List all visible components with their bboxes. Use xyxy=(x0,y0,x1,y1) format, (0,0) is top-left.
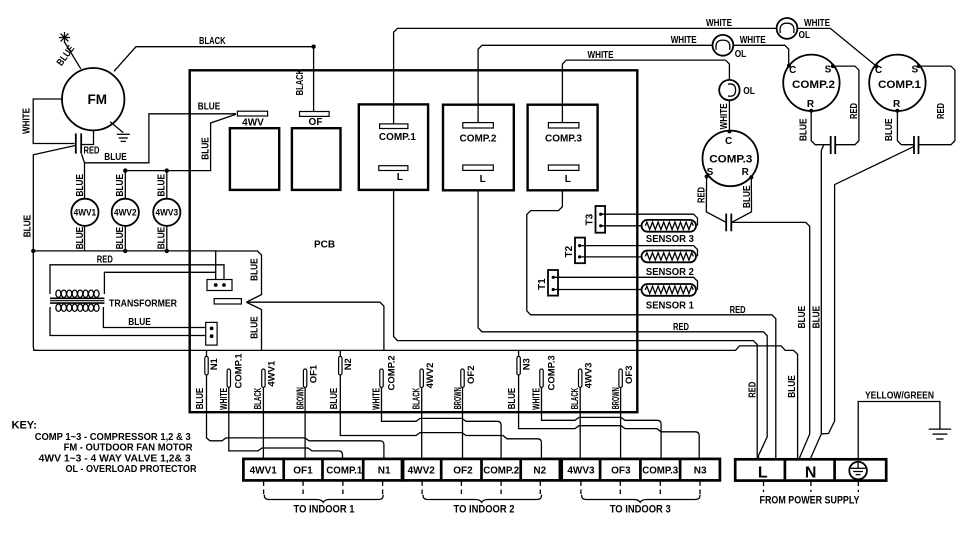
svg-text:WHITE: WHITE xyxy=(706,18,732,29)
thermistor SENSOR 2 xyxy=(642,251,697,263)
wire: top bus to 4WV relay bar riser xyxy=(125,114,236,170)
ground (FM frame) xyxy=(110,122,123,133)
transformer T xyxy=(50,290,104,311)
svg-text:BLUE: BLUE xyxy=(115,227,126,250)
wire BLACK: pin 4WV1 to terminal 4WV1 xyxy=(262,387,264,459)
svg-text:COMP.1: COMP.1 xyxy=(326,465,362,476)
dashed stubs block 3 xyxy=(581,481,700,495)
wire RED: COMP.2 S to capacitor xyxy=(833,66,859,145)
fan motor FM xyxy=(62,68,124,130)
wire BLUE: FM bottom to 4WV bar riser xyxy=(85,114,237,163)
wire: T3 upper pin to sensor3 right end xyxy=(601,214,698,226)
svg-text:OL - OVERLOAD PROTECTOR: OL - OVERLOAD PROTECTOR xyxy=(66,464,198,475)
svg-text:BLUE: BLUE xyxy=(797,306,808,329)
svg-text:BLACK: BLACK xyxy=(411,387,422,409)
pin COMP.1 xyxy=(227,369,230,387)
wire: COMP.1 L to power L xyxy=(394,190,758,459)
pin 4WV3 xyxy=(579,369,582,387)
terminal block 2 xyxy=(403,459,560,481)
wire: 4WV1 top lead xyxy=(84,163,86,199)
svg-text:T1: T1 xyxy=(537,278,548,290)
svg-text:COMP.3: COMP.3 xyxy=(545,134,582,145)
wire: 4WV1 bottom lead xyxy=(84,226,86,251)
svg-text:N3: N3 xyxy=(521,358,532,370)
wire: junction down to OF bar xyxy=(313,47,315,112)
svg-text:BLUE: BLUE xyxy=(75,227,86,250)
svg-text:OF3: OF3 xyxy=(611,466,631,477)
wire BLACK: FM to OF junction xyxy=(114,47,314,72)
wire: neutral line to power N xyxy=(34,346,798,460)
node 4WV2 top xyxy=(123,168,127,172)
svg-text:4WV 1~3 - 4 WAY VALVE 1,2& 3: 4WV 1~3 - 4 WAY VALVE 1,2& 3 xyxy=(39,453,191,464)
svg-text:TO INDOOR 3: TO INDOOR 3 xyxy=(610,504,671,516)
svg-text:BLUE: BLUE xyxy=(75,174,86,197)
connector CN3 (spade crimp terminal) xyxy=(214,299,241,304)
pin OF1 xyxy=(303,369,306,387)
compressor COMP.1 motor xyxy=(869,55,925,111)
svg-text:BLUE: BLUE xyxy=(249,316,260,339)
wire: OL3 to COMP.3 C xyxy=(728,100,730,131)
overload protector OL2 xyxy=(713,35,734,56)
svg-text:R: R xyxy=(893,99,901,110)
relay 4WV box xyxy=(230,128,279,190)
transformer primary coil xyxy=(56,290,61,297)
wire WHITE: pin COMP.1 to terminal COMP.1 xyxy=(229,387,343,459)
dashed stubs block 2 xyxy=(422,481,540,495)
PCB board outline xyxy=(190,70,638,412)
svg-text:BLUE: BLUE xyxy=(115,174,126,197)
wire RED: COMP.3 S to capacitor xyxy=(706,177,726,223)
svg-text:4WV3: 4WV3 xyxy=(156,208,179,218)
svg-text:N2: N2 xyxy=(343,358,354,370)
svg-text:4WV1: 4WV1 xyxy=(250,466,278,477)
svg-text:BLACK: BLACK xyxy=(199,36,226,47)
pin 4WV2 xyxy=(420,369,423,387)
thermistor SENSOR 1 xyxy=(642,284,697,296)
svg-text:BLUE: BLUE xyxy=(507,388,518,410)
wire RED: primary left to connector xyxy=(50,265,224,294)
dashed stubs block 1 xyxy=(264,481,383,495)
earth terminal symbol xyxy=(849,462,867,480)
svg-text:S: S xyxy=(825,64,832,75)
relay OF terminal bar xyxy=(300,112,330,117)
svg-text:N: N xyxy=(805,465,817,482)
dashed stubs power block xyxy=(764,482,859,492)
svg-text:N3: N3 xyxy=(694,465,707,476)
svg-text:BLUE: BLUE xyxy=(201,137,212,160)
valve coil 4WV2 xyxy=(112,199,139,226)
wire: T2 lower pin to sensor2 left end xyxy=(580,256,643,258)
wire stub: N line to pin N2 xyxy=(339,350,341,357)
wire BROWN: pin OF3 to terminal OF3 xyxy=(620,387,622,459)
svg-text:BLUE: BLUE xyxy=(198,102,221,113)
wire WHITE: COMP.3 relay to OL3 xyxy=(562,60,729,123)
pin N2 xyxy=(339,356,342,375)
wire: 4WV3 top lead xyxy=(166,171,168,199)
svg-text:OF3: OF3 xyxy=(624,366,635,384)
svg-text:L: L xyxy=(480,174,486,185)
svg-text:BLUE: BLUE xyxy=(787,375,798,398)
svg-text:BLACK: BLACK xyxy=(570,387,581,409)
svg-text:BLACK: BLACK xyxy=(253,387,264,409)
wire WHITE: pin COMP.3 to terminal COMP.3 xyxy=(542,387,662,459)
svg-text:T3: T3 xyxy=(584,213,595,225)
brace TO INDOOR 2 xyxy=(423,495,542,503)
svg-text:COMP.3: COMP.3 xyxy=(642,465,678,476)
svg-text:SENSOR 3: SENSOR 3 xyxy=(646,234,694,245)
wire: 4WV3 bottom lead xyxy=(166,226,168,251)
node: bus junction far-left xyxy=(31,249,35,253)
svg-text:BLUE: BLUE xyxy=(104,152,127,163)
ground symbol (mains earth) xyxy=(929,429,951,439)
wire WHITE: COMP.2 relay to OL2 xyxy=(478,45,712,122)
node 4WV3 bottom xyxy=(165,249,169,253)
pin OF3 xyxy=(619,369,622,387)
connector CN2 (2-pin vertical) xyxy=(206,322,217,345)
wire BROWN: pin OF1 to terminal OF1 xyxy=(304,387,306,459)
pin 4WV1 xyxy=(262,369,265,387)
svg-text:L: L xyxy=(758,465,768,482)
wire BLUE: COMP.2 R to capacitor xyxy=(811,111,831,145)
svg-text:4WV2: 4WV2 xyxy=(114,208,137,218)
svg-text:BLUE: BLUE xyxy=(798,118,809,141)
wire BLUE: bus extension down to spade junction xyxy=(216,251,262,302)
svg-text:L: L xyxy=(397,172,403,183)
terminal block 3 xyxy=(562,459,720,481)
wire: T1 upper pin to sensor1 right end xyxy=(553,277,697,290)
wire: T1 lower pin to sensor1 left end xyxy=(553,289,642,291)
valve coil 4WV1 xyxy=(71,199,98,226)
svg-text:RED: RED xyxy=(747,382,758,398)
svg-text:RED: RED xyxy=(730,305,746,316)
wire BLUE: pin N2 to terminal N2 xyxy=(340,375,541,459)
svg-text:N2: N2 xyxy=(533,465,546,476)
capacitor C3 xyxy=(725,214,727,232)
wire BLUE: spade junction down to neutral line xyxy=(247,302,262,350)
svg-text:COMP.1: COMP.1 xyxy=(379,132,416,143)
terminal block 1 xyxy=(243,459,402,481)
svg-text:WHITE: WHITE xyxy=(804,18,830,29)
svg-text:L: L xyxy=(565,174,571,185)
wire: secondary left lead xyxy=(50,307,206,336)
relay COMP.2 box xyxy=(443,105,514,191)
svg-text:N1: N1 xyxy=(378,465,391,476)
svg-text:4WV3: 4WV3 xyxy=(584,363,595,389)
wire BLUE: COMP.1 R to capacitor xyxy=(897,111,914,145)
pin COMP.2 xyxy=(380,369,383,387)
relay COMP.3 box xyxy=(528,105,598,191)
svg-text:N1: N1 xyxy=(209,357,220,370)
connector CN1 (2-pin horizontal) xyxy=(207,280,232,291)
capacitor (FM run cap) xyxy=(75,133,77,153)
capacitor C2 xyxy=(830,136,832,154)
wire: cap right plate to FM bottom xyxy=(81,131,93,145)
wire stub: N line to pin N3 xyxy=(518,350,520,357)
svg-text:FM - OUTDOOR FAN MOTOR: FM - OUTDOOR FAN MOTOR xyxy=(64,443,194,454)
brace TO INDOOR 3 xyxy=(582,495,700,503)
svg-text:BLUE: BLUE xyxy=(884,118,895,141)
svg-text:COMP.1: COMP.1 xyxy=(234,353,245,389)
svg-text:BLUE: BLUE xyxy=(742,185,753,208)
wire YELLOW/GREEN: earth terminal to ground xyxy=(858,402,940,460)
svg-text:RED: RED xyxy=(696,187,707,203)
svg-text:OL: OL xyxy=(743,86,755,97)
wire WHITE: pin COMP.2 to terminal COMP.2 xyxy=(382,387,502,459)
svg-text:RED: RED xyxy=(849,103,860,119)
wire: COMP.3 junction right and down to N xyxy=(731,222,809,459)
svg-text:RED: RED xyxy=(97,255,113,266)
svg-text:COMP.2: COMP.2 xyxy=(460,134,497,145)
svg-text:COMP.2: COMP.2 xyxy=(386,355,397,390)
svg-text:OF1: OF1 xyxy=(293,466,313,477)
svg-text:BLUE: BLUE xyxy=(23,215,34,238)
wire: cap right plate down-link to BLUE corner xyxy=(82,154,85,163)
pin N3 xyxy=(517,356,520,375)
wire stub: N line to pin N1 xyxy=(206,350,208,357)
brace TO INDOOR 1 xyxy=(264,495,383,503)
svg-text:RED: RED xyxy=(936,103,947,119)
compressor COMP.3 motor xyxy=(703,131,759,187)
svg-text:COMP 1~3 - COMPRESSOR 1,2 & 3: COMP 1~3 - COMPRESSOR 1,2 & 3 xyxy=(35,432,191,443)
node 4WV3 top xyxy=(165,168,169,172)
wire BLUE: pin N1 to terminal N1 xyxy=(207,375,384,459)
transformer secondary coil xyxy=(56,304,61,311)
svg-text:OL: OL xyxy=(799,30,811,41)
svg-text:WHITE: WHITE xyxy=(22,108,33,134)
svg-text:BLUE: BLUE xyxy=(249,258,260,281)
wire: cap left plate diagonal to far-left vertical xyxy=(33,146,75,251)
wire BLACK: pin 4WV2 to terminal 4WV2 xyxy=(421,387,423,459)
svg-text:BLUE: BLUE xyxy=(157,174,168,197)
svg-text:COMP.2: COMP.2 xyxy=(792,79,835,91)
wire: T3 lower pin to sensor3 left end xyxy=(601,225,643,227)
overload protector OL1 xyxy=(777,18,798,39)
valve coil 4WV3 xyxy=(153,199,180,226)
wire: T2 upper pin to sensor2 right end xyxy=(580,246,698,257)
svg-text:BLACK: BLACK xyxy=(295,68,306,95)
power terminal block xyxy=(735,459,886,480)
wire RED: COMP.2 L to power L xyxy=(478,190,767,459)
svg-text:COMP.3: COMP.3 xyxy=(709,154,752,166)
wire: bottom blue bus xyxy=(33,251,215,280)
wire BROWN: pin OF2 to terminal OF2 xyxy=(462,387,464,459)
wire: OL2 to COMP.2 C xyxy=(733,45,788,65)
svg-text:WHITE: WHITE xyxy=(719,103,730,129)
svg-text:OF: OF xyxy=(309,117,323,128)
wire WHITE: FM left lead xyxy=(33,99,74,144)
compressor COMP.2 motor xyxy=(783,55,839,111)
star symbol (antenna mark) xyxy=(59,32,70,43)
svg-text:TO INDOOR 2: TO INDOOR 2 xyxy=(454,504,515,516)
svg-text:4WV2: 4WV2 xyxy=(425,363,436,389)
svg-text:OL: OL xyxy=(735,49,747,60)
thermistor SENSOR 3 xyxy=(642,220,697,232)
svg-text:PCB: PCB xyxy=(314,240,335,251)
wire: 4WV2 top lead xyxy=(124,171,126,199)
wire: primary right to connector left pin xyxy=(104,272,215,294)
pin N1 xyxy=(205,356,208,375)
wire RED: COMP.1 S to capacitor xyxy=(919,66,955,145)
svg-text:RED: RED xyxy=(84,146,100,157)
pin COMP.3 xyxy=(540,369,543,387)
wire: spade to N line riser xyxy=(246,302,384,350)
svg-text:OF2: OF2 xyxy=(453,466,473,477)
svg-text:4WV2: 4WV2 xyxy=(408,466,436,477)
connector T2 xyxy=(575,238,585,264)
svg-text:TRANSFORMER: TRANSFORMER xyxy=(109,299,178,310)
svg-text:BLUE: BLUE xyxy=(329,388,340,410)
capacitor C1 xyxy=(913,136,915,154)
node 4WV2 bottom xyxy=(123,249,127,253)
wire BLUE: COMP.3 R to capacitor xyxy=(732,177,752,222)
svg-text:BLUE: BLUE xyxy=(157,227,168,250)
svg-text:R: R xyxy=(807,99,815,110)
wire FM to star xyxy=(65,43,81,69)
svg-text:SENSOR 2: SENSOR 2 xyxy=(646,267,694,278)
wire: far-left vertical down to N line xyxy=(33,251,38,351)
pin OF2 xyxy=(461,369,464,387)
transformer core xyxy=(50,297,104,299)
relay OF box xyxy=(292,128,341,190)
svg-text:BLUE: BLUE xyxy=(812,306,823,329)
svg-text:OF1: OF1 xyxy=(308,364,319,383)
wire BLACK: pin 4WV3 to terminal 4WV3 xyxy=(579,387,581,459)
svg-text:COMP.3: COMP.3 xyxy=(546,355,557,390)
wire WHITE: COMP.1 relay to OL1 xyxy=(394,28,777,124)
svg-text:BLUE: BLUE xyxy=(195,388,206,410)
wire RED: COMP.3 L to power L xyxy=(527,190,776,459)
wire BLUE: secondary right lead xyxy=(103,307,205,328)
svg-text:FROM POWER SUPPLY: FROM POWER SUPPLY xyxy=(760,495,861,507)
svg-text:YELLOW/GREEN: YELLOW/GREEN xyxy=(865,391,934,402)
wire BLUE: pin N3 to terminal N3 xyxy=(519,375,700,459)
svg-text:4WV3: 4WV3 xyxy=(567,466,595,477)
svg-text:COMP.1: COMP.1 xyxy=(878,79,921,91)
svg-text:WHITE: WHITE xyxy=(671,35,697,46)
svg-text:RED: RED xyxy=(673,322,689,333)
relay COMP.1 box xyxy=(359,104,428,189)
connector T1 xyxy=(548,270,558,296)
svg-text:BLUE: BLUE xyxy=(128,317,151,328)
svg-text:OF2: OF2 xyxy=(466,366,477,384)
svg-text:4WV1: 4WV1 xyxy=(267,360,278,387)
svg-text:WHITE: WHITE xyxy=(740,35,766,46)
svg-text:KEY:: KEY: xyxy=(12,420,37,432)
svg-text:R: R xyxy=(742,167,750,178)
svg-text:C: C xyxy=(725,136,732,147)
wire: COMP.2 junction down to N xyxy=(810,145,824,460)
overload protector OL3 xyxy=(719,80,739,100)
wire: COMP.1 junction diagonal down to N xyxy=(821,146,914,434)
node: junction OF drop xyxy=(311,45,315,49)
svg-text:FM: FM xyxy=(88,92,108,107)
svg-text:T2: T2 xyxy=(564,245,575,257)
svg-text:TO INDOOR 1: TO INDOOR 1 xyxy=(294,504,355,516)
relay 4WV terminal bar xyxy=(237,111,267,116)
connector T3 xyxy=(596,206,606,233)
wire: 4WV2 bottom lead xyxy=(124,226,126,251)
svg-text:COMP.2: COMP.2 xyxy=(483,465,519,476)
svg-text:WHITE: WHITE xyxy=(588,50,614,61)
svg-text:SENSOR 1: SENSOR 1 xyxy=(646,301,694,312)
wire: OL1 to COMP.1 C xyxy=(797,28,876,66)
svg-text:4WV1: 4WV1 xyxy=(74,208,97,218)
